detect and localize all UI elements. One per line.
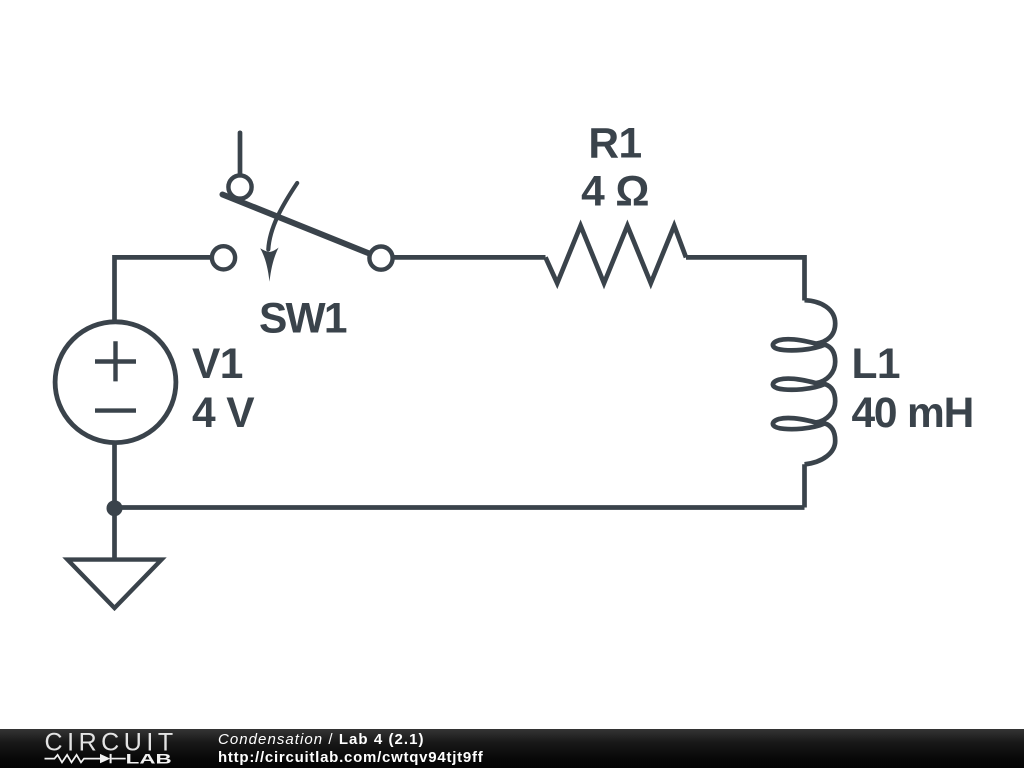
svg-text:L1: L1 — [852, 341, 900, 388]
switch SW1 right terminal circle — [369, 247, 392, 270]
inductor L1 — [773, 300, 835, 464]
svg-text:R1: R1 — [588, 121, 641, 168]
wire: V1 bottom lead to junction — [112, 444, 117, 508]
switch SW1 left terminal circle — [212, 246, 235, 269]
svg-text:40 mH: 40 mH — [852, 390, 974, 437]
switch SW1 top terminal circle — [228, 175, 251, 198]
CircuitLab logo resistor-diode glyph — [45, 754, 126, 763]
svg-text:SW1: SW1 — [259, 296, 347, 343]
switch SW1 blade — [223, 195, 371, 255]
wire: inductor L1 bottom lead — [802, 464, 807, 507]
svg-text:4 Ω: 4 Ω — [581, 169, 649, 216]
switch SW1 actuation arrow arc — [268, 183, 297, 250]
switch SW1 arrow head — [260, 248, 278, 282]
wire: bottom rail — [115, 505, 805, 510]
wire: junction to ground — [112, 508, 117, 560]
V1 minus sign — [95, 408, 136, 412]
wire: resistor R1 to inductor L1 top — [686, 257, 805, 300]
switch SW1 top stub — [238, 133, 243, 187]
footer title text — [218, 732, 425, 747]
wire top-left: V1 top to switch left terminal — [115, 257, 224, 320]
voltage source V1 circle — [55, 322, 176, 443]
V1 plus sign — [95, 341, 136, 381]
footer bar — [0, 729, 1024, 768]
footer url text — [218, 750, 483, 765]
svg-text:V1: V1 — [192, 341, 243, 388]
svg-text:4 V: 4 V — [192, 390, 255, 437]
ground — [68, 560, 162, 608]
resistor R1 — [546, 226, 687, 284]
wire: switch right terminal to resistor R1 — [381, 255, 546, 260]
junction dot (node between V1, L1, ground) — [107, 500, 123, 516]
svg-text:LAB: LAB — [126, 750, 172, 766]
